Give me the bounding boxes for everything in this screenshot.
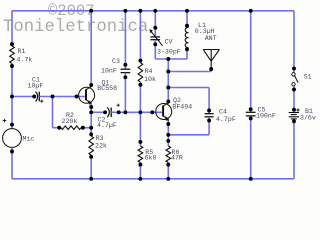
svg-text:ANT: ANT <box>205 35 217 42</box>
svg-text:R4: R4 <box>145 68 153 75</box>
svg-text:10µF: 10µF <box>28 83 44 90</box>
svg-text:BC558: BC558 <box>97 85 117 92</box>
svg-text:R1: R1 <box>18 48 26 55</box>
svg-text:Mic: Mic <box>23 136 35 143</box>
svg-text:R3: R3 <box>96 135 104 142</box>
svg-text:3/6v: 3/6v <box>300 115 316 122</box>
svg-text:S1: S1 <box>304 74 312 81</box>
svg-text:47R: 47R <box>171 155 183 162</box>
svg-text:10nF: 10nF <box>101 68 117 75</box>
svg-text:100nF: 100nF <box>256 113 276 120</box>
svg-text:10k: 10k <box>144 76 156 83</box>
svg-text:BF494: BF494 <box>172 104 192 111</box>
svg-text:6k8: 6k8 <box>145 155 157 162</box>
svg-text:Tonieletronica: Tonieletronica <box>3 18 148 37</box>
svg-text:220k: 220k <box>62 118 78 125</box>
svg-text:3-30pF: 3-30pF <box>157 48 181 55</box>
svg-text:4.7pF: 4.7pF <box>216 116 236 123</box>
svg-text:C3: C3 <box>112 58 120 65</box>
svg-text:4.7µF: 4.7µF <box>97 122 117 129</box>
svg-text:22k: 22k <box>95 143 107 150</box>
svg-text:4.7k: 4.7k <box>17 57 33 64</box>
svg-text:CV: CV <box>165 39 173 46</box>
svg-text:C4: C4 <box>219 108 227 115</box>
